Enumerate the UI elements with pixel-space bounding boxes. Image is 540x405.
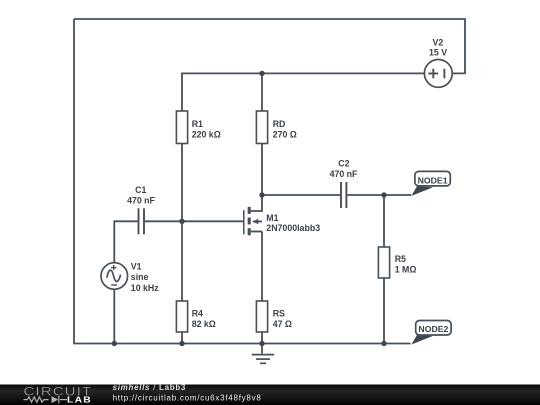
svg-text:2N7000labb3: 2N7000labb3 xyxy=(266,223,320,233)
svg-text:R4: R4 xyxy=(192,308,203,318)
svg-text:C1: C1 xyxy=(135,185,146,195)
svg-text:V1: V1 xyxy=(131,261,142,271)
svg-text:sine: sine xyxy=(131,272,149,282)
svg-text:M1: M1 xyxy=(266,213,278,223)
svg-text:NODE1: NODE1 xyxy=(418,175,448,185)
svg-text:10 kHz: 10 kHz xyxy=(131,283,159,293)
svg-text:C2: C2 xyxy=(338,159,349,169)
svg-text:47 Ω: 47 Ω xyxy=(273,319,292,329)
svg-text:V2: V2 xyxy=(433,37,444,47)
svg-text:470 nF: 470 nF xyxy=(330,169,358,179)
svg-text:RD: RD xyxy=(273,119,286,129)
svg-text:simhells / Labb3: simhells / Labb3 xyxy=(113,383,186,392)
svg-text:http://circuitlab.com/cu6x3f48: http://circuitlab.com/cu6x3f48fy8v8 xyxy=(113,393,262,402)
svg-text:RS: RS xyxy=(273,308,285,318)
svg-text:R1: R1 xyxy=(192,119,203,129)
svg-text:NODE2: NODE2 xyxy=(418,324,448,334)
svg-text:220 kΩ: 220 kΩ xyxy=(192,129,221,139)
svg-text:R5: R5 xyxy=(395,254,406,264)
svg-text:270 Ω: 270 Ω xyxy=(273,129,297,139)
svg-text:470 nF: 470 nF xyxy=(127,196,155,206)
svg-text:1 MΩ: 1 MΩ xyxy=(395,265,417,275)
svg-text:15 V: 15 V xyxy=(429,47,447,57)
svg-text:82 kΩ: 82 kΩ xyxy=(192,319,216,329)
svg-text:LAB: LAB xyxy=(67,395,92,404)
